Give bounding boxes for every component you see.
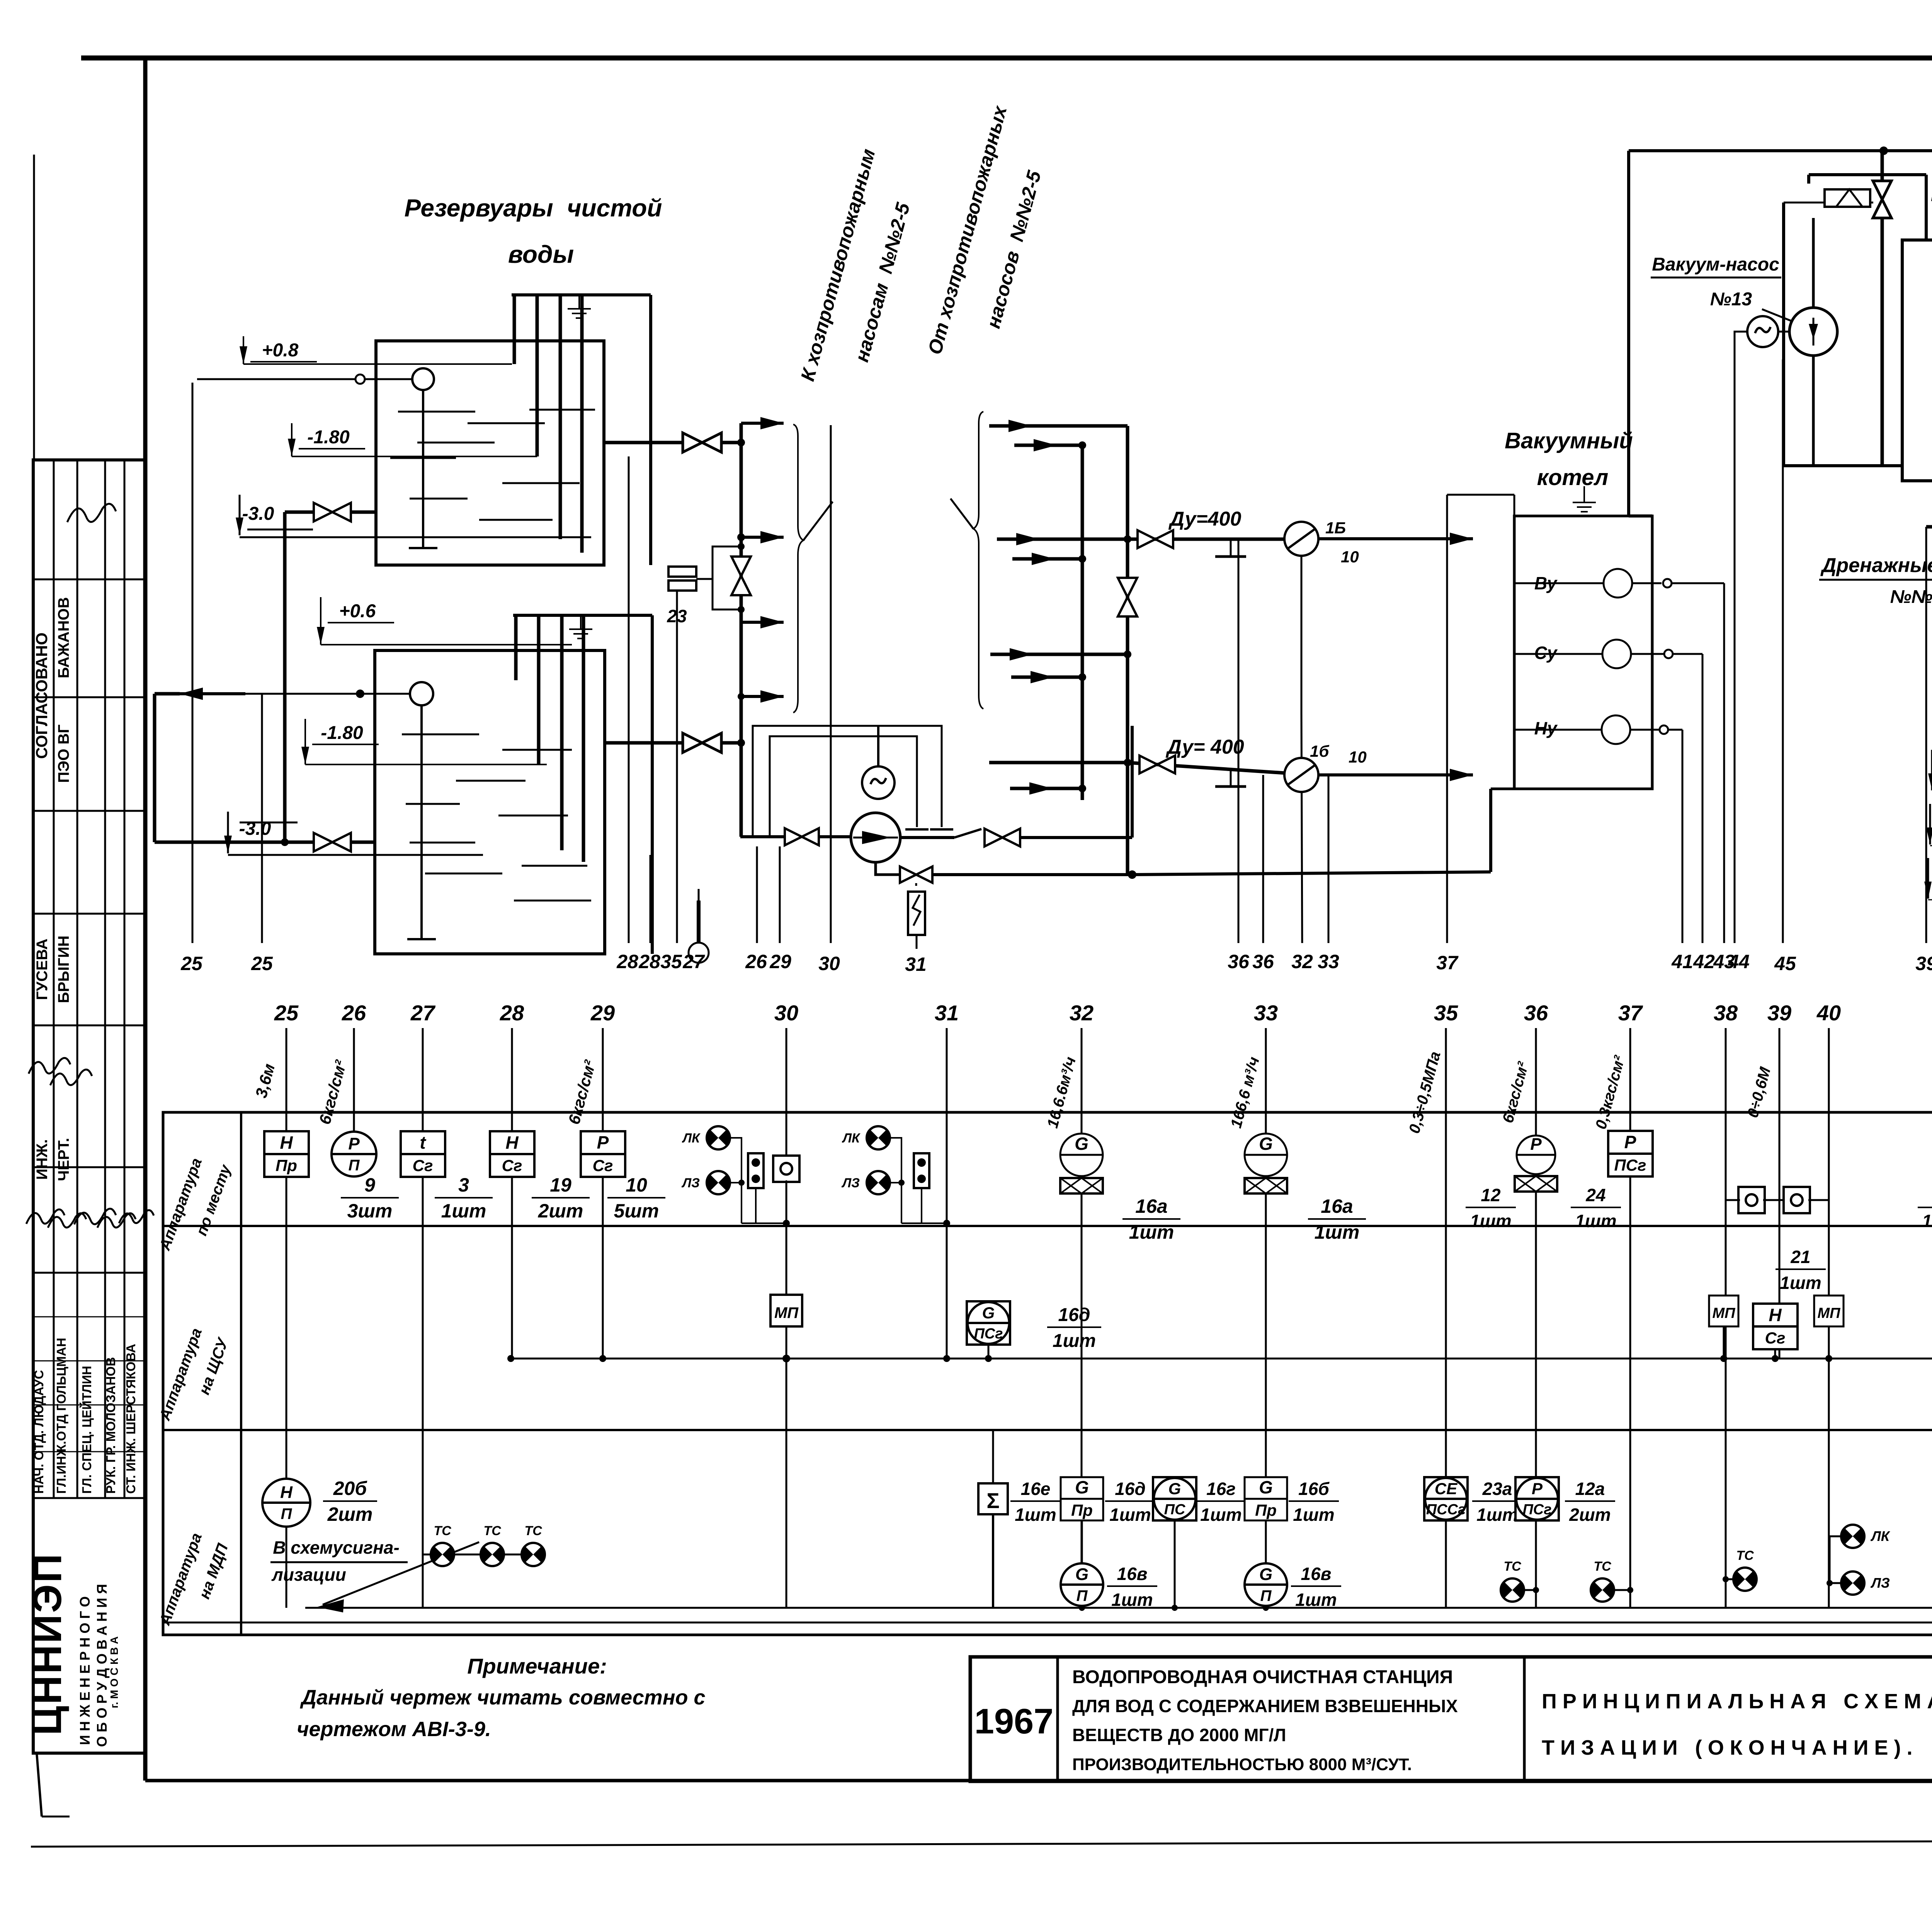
svg-text:16д: 16д — [1115, 1479, 1146, 1499]
stamp signatures 3 — [26, 1209, 154, 1227]
valve T2 outlet — [683, 733, 721, 752]
svg-text:1шт: 1шт — [1470, 1211, 1511, 1231]
instrument Н/Сг col28 — [490, 1131, 534, 1177]
wire pump discharge — [900, 829, 981, 838]
wire ПСг to bus — [988, 1345, 990, 1359]
stamp column rows — [33, 579, 145, 1498]
tank T1 riser pipes — [514, 295, 582, 553]
svg-text:И Н Ж Е Н Е Р Н О Г О: И Н Ж Е Н Е Р Н О Г О — [77, 1596, 93, 1745]
float T2 — [407, 682, 436, 939]
wire T2 outlet — [605, 741, 684, 745]
svg-text:г. М О С К В А: г. М О С К В А — [108, 1636, 120, 1708]
ground tap upper — [1215, 539, 1246, 557]
wire sum box — [992, 1430, 994, 1608]
svg-text:1шт: 1шт — [1111, 1590, 1153, 1610]
svg-text:СТ. ИНЖ. ШЕРСТЯКОВА: СТ. ИНЖ. ШЕРСТЯКОВА — [124, 1344, 138, 1494]
boiler level СУ — [1514, 640, 1702, 668]
wire drop 39 — [1925, 527, 1927, 943]
wire drop 35a — [676, 591, 678, 943]
frac 25/1шт col41 — [1918, 1185, 1932, 1231]
svg-text:Н: Н — [280, 1483, 293, 1502]
instr G/ПСг col31 — [967, 1301, 1010, 1345]
instr G/Пр col32 — [1061, 1477, 1103, 1520]
motor M1 — [862, 766, 895, 799]
svg-text:36: 36 — [1228, 951, 1250, 972]
svg-text:-3.0: -3.0 — [242, 504, 274, 524]
label К хозпротивопожарным — [796, 146, 914, 383]
wire discharge to boiler — [1132, 789, 1491, 875]
svg-text:G: G — [982, 1304, 995, 1322]
manifold 2 arrow 3 — [997, 533, 1039, 545]
lamp ТС 27b — [453, 1524, 504, 1566]
svg-text:5шт: 5шт — [614, 1200, 659, 1222]
svg-text:ПС: ПС — [1164, 1502, 1185, 1518]
manifold 1 dots — [737, 439, 745, 747]
svg-text:1шт: 1шт — [1129, 1221, 1174, 1243]
thermometer — [689, 889, 709, 963]
instrument P/П col26 — [332, 1132, 376, 1176]
instrument Р/ПСг col37 — [1608, 1131, 1653, 1176]
manifold 1 arrow 1 — [741, 417, 784, 429]
manifold 2 pipe — [1082, 426, 1128, 875]
svg-text:28: 28 — [500, 1001, 524, 1025]
label От хозпротивопожарных — [924, 103, 1045, 357]
tank T2 right pipe — [651, 615, 654, 954]
svg-text:2шт: 2шт — [1569, 1505, 1611, 1525]
valve pump suction — [785, 828, 819, 845]
stamp signature 2 — [29, 1058, 92, 1085]
instr Н/П col25 — [262, 1479, 310, 1527]
table outline — [163, 1112, 1932, 1635]
svg-text:котел: котел — [1537, 465, 1609, 490]
label 30a lineA — [818, 953, 840, 974]
sum box col31 — [978, 1483, 1008, 1514]
title cell sheet name — [1542, 1657, 1932, 1781]
svg-text:ДЛЯ ВОД С СОДЕРЖАНИЕМ ВЗВЕШЕНН: ДЛЯ ВОД С СОДЕРЖАНИЕМ ВЗВЕШЕННЫХ — [1072, 1696, 1458, 1716]
svg-text:+0.6: +0.6 — [339, 601, 376, 621]
svg-text:Р: Р — [1624, 1132, 1636, 1152]
svg-text:38: 38 — [1714, 1001, 1738, 1025]
svg-text:16д: 16д — [1058, 1305, 1090, 1325]
wire tap drop 36a — [1238, 539, 1240, 943]
manifold 2 arrow 6 — [1011, 671, 1086, 683]
level mark -3.0 T1 — [236, 495, 313, 535]
wire pump drain — [876, 862, 1136, 879]
svg-text:9: 9 — [364, 1174, 375, 1196]
svg-text:19: 19 — [550, 1174, 571, 1196]
svg-text:33: 33 — [1254, 1001, 1278, 1025]
label Циркуляционный бачок — [1931, 183, 1932, 237]
valve manifold M2 — [1118, 578, 1137, 616]
svg-text:31: 31 — [935, 1001, 959, 1025]
svg-text:27: 27 — [682, 951, 705, 972]
wire drop 30a — [830, 425, 832, 943]
svg-text:23а: 23а — [1482, 1479, 1512, 1499]
svg-text:лизации: лизации — [271, 1565, 346, 1585]
valve pump drain — [900, 867, 932, 883]
svg-text:БАЖАНОВ: БАЖАНОВ — [55, 597, 72, 678]
wire drop 37 — [1446, 495, 1448, 943]
svg-text:Сг: Сг — [593, 1156, 613, 1175]
svg-text:26: 26 — [342, 1001, 366, 1025]
svg-text:29: 29 — [590, 1001, 615, 1025]
valve Du400 lower — [1139, 756, 1175, 773]
table label column — [240, 1112, 242, 1635]
svg-text:30: 30 — [774, 1001, 798, 1025]
label 45a lineA — [1774, 953, 1796, 974]
svg-text:воды: воды — [508, 240, 574, 268]
U-loop outer — [753, 726, 953, 837]
wire МП40 — [1828, 1326, 1830, 1359]
svg-text:Р: Р — [1530, 1135, 1542, 1154]
vacuum pump 13 label — [1651, 254, 1801, 325]
wire drop 42 — [1702, 654, 1704, 943]
frac 24/1шт col36 — [1571, 1185, 1621, 1231]
tank T2 riser header — [513, 614, 652, 617]
frac 16в/1шт b — [1291, 1564, 1341, 1610]
svg-text:ПСг: ПСг — [1522, 1502, 1551, 1518]
unit label 35 — [1406, 1050, 1444, 1135]
svg-text:Данный чертеж читать совмес: Данный чертеж читать совместно с — [300, 1686, 705, 1709]
svg-text:1Б: 1Б — [1325, 519, 1346, 537]
svg-text:G: G — [1075, 1477, 1089, 1497]
tank T2 water lines — [402, 734, 591, 901]
paper edge left — [33, 155, 35, 460]
svg-text:1шт: 1шт — [441, 1200, 486, 1222]
wire T1 outlet — [604, 441, 684, 444]
svg-text:27: 27 — [410, 1001, 436, 1025]
svg-text:П Р И Н Ц И П И А Л Ь Н А Я: П Р И Н Ц И П И А Л Ь Н А Я С Х Е М А А … — [1542, 1690, 1932, 1713]
frac 9/3шт — [341, 1174, 399, 1222]
boiler level НУ — [1514, 715, 1682, 744]
unit label 37 — [1592, 1053, 1628, 1131]
svg-text:26: 26 — [745, 951, 767, 972]
svg-text:24: 24 — [1585, 1185, 1605, 1205]
label 1b lower — [1310, 742, 1367, 766]
wire Du400 lower — [989, 759, 1284, 773]
wire T1 drain level line — [240, 536, 556, 538]
svg-text:G: G — [1259, 1565, 1272, 1584]
relay МП col38 — [1709, 1296, 1738, 1326]
manifold 2 arrow 4 — [1012, 553, 1086, 565]
svg-text:37: 37 — [1618, 1001, 1643, 1025]
unit label 39 — [1744, 1065, 1774, 1120]
stamp text БАЖАНОВ — [55, 597, 72, 678]
unit label 36 — [1499, 1059, 1532, 1125]
label 36b lineA — [1252, 951, 1274, 972]
instr G/П col33b — [1245, 1563, 1287, 1606]
unit label 29 — [565, 1058, 599, 1126]
svg-text:16а: 16а — [1135, 1195, 1167, 1217]
svg-text:40: 40 — [1816, 1001, 1841, 1025]
svg-text:35: 35 — [1434, 1001, 1458, 1025]
wire motor13 link — [1778, 331, 1789, 333]
svg-text:СЕ: СЕ — [1435, 1479, 1458, 1498]
wire Du400 upper out — [1318, 533, 1473, 545]
wire top center drop — [1881, 151, 1884, 466]
stamp text ПЭО ВГ — [55, 725, 72, 783]
svg-text:28: 28 — [616, 951, 638, 972]
note Примечание — [467, 1654, 607, 1678]
svg-text:№13: №13 — [1710, 289, 1752, 310]
label 44a lineA — [1728, 951, 1750, 972]
svg-text:2шт: 2шт — [327, 1503, 373, 1525]
svg-text:Пр: Пр — [1255, 1501, 1277, 1519]
lamp ТС col37 — [1591, 1559, 1633, 1602]
wire drop 28a — [628, 456, 630, 943]
wire col28 to bus — [511, 1226, 512, 1359]
valve T1 drain — [314, 503, 351, 521]
stamp logo line2 — [77, 1596, 93, 1745]
svg-text:Р: Р — [1532, 1479, 1543, 1498]
stamp text ЧЕРТ — [55, 1138, 72, 1181]
svg-text:Резервуары чистой: Резервуары чистой — [405, 194, 662, 222]
label 37 lineA — [1436, 952, 1459, 974]
label 1Б upper — [1325, 519, 1359, 566]
frac 16е/1шт — [1010, 1479, 1061, 1525]
manifold 2 brace — [951, 412, 983, 709]
svg-text:ГУСЕВА: ГУСЕВА — [34, 939, 51, 1000]
svg-text:36: 36 — [1524, 1001, 1548, 1025]
wire МП col30 — [786, 1326, 787, 1359]
stamp text ГУСЕВА — [34, 939, 51, 1000]
svg-text:G: G — [1259, 1477, 1273, 1497]
wire T2 outlet b — [721, 741, 741, 745]
paper edge bottom — [31, 1831, 1932, 1847]
label Du400 lower — [1165, 736, 1244, 758]
instr G/П col32b — [1061, 1563, 1103, 1606]
unit label 32 — [1044, 1055, 1079, 1130]
label 43 lineA — [1713, 951, 1735, 972]
svg-text:1б: 1б — [1310, 742, 1329, 760]
wire drop 43 — [1682, 730, 1684, 943]
svg-text:Н: Н — [505, 1132, 519, 1153]
frac 12а/2шт — [1565, 1479, 1615, 1525]
stamp logo line4 — [108, 1636, 120, 1708]
svg-text:чертежом АВI-3-9.: чертежом АВI-3-9. — [297, 1718, 491, 1741]
label 36a lineA — [1228, 951, 1250, 972]
label Резервуары чистой воды — [405, 194, 662, 268]
svg-text:Σ: Σ — [986, 1488, 1000, 1513]
svg-text:10: 10 — [626, 1174, 647, 1196]
svg-text:41: 41 — [1671, 951, 1693, 972]
svg-text:ПСг: ПСг — [974, 1326, 1003, 1342]
svg-text:1шт: 1шт — [1053, 1331, 1096, 1351]
svg-text:10: 10 — [1349, 748, 1367, 766]
wire solenoid line — [1784, 202, 1873, 204]
svg-text:П: П — [281, 1505, 293, 1522]
svg-text:1шт: 1шт — [1295, 1590, 1337, 1610]
manifold 2 arrow 2 — [1014, 439, 1086, 451]
svg-text:t: t — [420, 1132, 426, 1153]
manifold 1 arrow 4 — [741, 690, 784, 703]
label 25b lineA — [251, 953, 273, 974]
instr СЕ/ПССг col35 — [1424, 1477, 1468, 1520]
svg-text:П: П — [1260, 1587, 1272, 1604]
frac 3/1шт — [435, 1174, 493, 1222]
border frame bottom — [145, 1779, 1932, 1783]
lamp ТС 27c — [503, 1524, 545, 1566]
svg-text:16в: 16в — [1301, 1564, 1332, 1584]
solenoid header — [1809, 175, 1926, 184]
wire drop 25b — [261, 694, 263, 943]
svg-text:В схемусигна-: В схемусигна- — [273, 1537, 400, 1558]
svg-text:25: 25 — [274, 1001, 299, 1025]
svg-text:№№ 9,10: №№ 9,10 — [1890, 587, 1932, 607]
wire pump13 bottom — [1812, 356, 1815, 466]
manifold 2 arrow 1 — [989, 420, 1128, 432]
press instr P col36 — [1515, 1135, 1557, 1192]
table inner bottom — [163, 1622, 1932, 1624]
instr G/Пр col33 — [1245, 1477, 1287, 1520]
svg-text:Н: Н — [280, 1132, 293, 1153]
label Du400 upper — [1168, 508, 1242, 530]
row3 bottom bus — [305, 1607, 1932, 1609]
label 23 — [667, 606, 687, 626]
svg-text:ПССг: ПССг — [1426, 1502, 1466, 1518]
svg-text:1шт: 1шт — [1109, 1505, 1151, 1525]
vacuum pump 13 — [1789, 308, 1837, 356]
wire drop 29a — [779, 846, 781, 943]
wire flow drop 32 — [1301, 556, 1302, 943]
label 28b lineA — [638, 951, 660, 972]
svg-text:12: 12 — [1481, 1185, 1501, 1205]
label 25a lineA — [180, 953, 203, 974]
ground symbol boiler — [1573, 486, 1596, 512]
svg-text:1шт: 1шт — [1780, 1273, 1821, 1293]
svg-text:37: 37 — [1436, 952, 1459, 974]
wire return riser — [1131, 726, 1134, 838]
svg-text:Сг: Сг — [1765, 1329, 1786, 1347]
manifold 1 arrow 3 — [741, 616, 784, 628]
svg-text:16в: 16в — [1117, 1564, 1148, 1584]
svg-text:16г: 16г — [1206, 1479, 1236, 1499]
svg-text:32: 32 — [1291, 951, 1313, 972]
svg-text:Пр: Пр — [1071, 1501, 1093, 1519]
svg-text:16б: 16б — [1298, 1479, 1330, 1499]
wire flow drop 33 — [1328, 775, 1330, 943]
svg-text:36: 36 — [1252, 951, 1274, 972]
svg-text:ЛК: ЛК — [682, 1131, 701, 1146]
title cell project name — [1072, 1657, 1524, 1781]
svg-text:Су: Су — [1534, 643, 1558, 663]
label 29a lineA — [769, 951, 791, 972]
svg-text:РУК. ГР. МОЛОЗАНОВ: РУК. ГР. МОЛОЗАНОВ — [104, 1357, 118, 1494]
wire boiler bottom — [1491, 788, 1514, 790]
svg-text:ЛК: ЛК — [1870, 1528, 1891, 1544]
svg-text:НАЧ. ОТД. ЛЮДАУС: НАЧ. ОТД. ЛЮДАУС — [32, 1370, 46, 1494]
svg-text:32: 32 — [1070, 1001, 1094, 1025]
frac 21/1шт row2 — [1776, 1247, 1826, 1293]
svg-text:16а: 16а — [1321, 1195, 1353, 1217]
svg-text:45: 45 — [1774, 953, 1796, 974]
svg-text:Ду=400: Ду=400 — [1168, 508, 1242, 530]
frac 23а/1шт — [1472, 1479, 1522, 1525]
solenoid 23 symbol — [668, 567, 713, 591]
svg-text:ПСг: ПСг — [1614, 1156, 1646, 1174]
level -2.90 — [1924, 858, 1932, 900]
svg-text:Ну: Ну — [1534, 718, 1558, 738]
stamp text БРЫГИН — [55, 936, 72, 1003]
wire motor13 drop — [1735, 332, 1747, 943]
svg-text:П: П — [1077, 1587, 1088, 1604]
label 39 lineA — [1915, 953, 1932, 974]
manifold 1 brace — [793, 424, 833, 713]
svg-text:G: G — [1075, 1134, 1088, 1154]
svg-text:1шт: 1шт — [1200, 1505, 1242, 1525]
lamp group col30 — [681, 1126, 799, 1227]
frac 16в/1шт a — [1107, 1564, 1157, 1610]
flow circle 1b lower — [1284, 758, 1318, 792]
unit label 26 — [315, 1058, 350, 1126]
inlet arrow — [180, 688, 245, 700]
svg-text:Ду= 400: Ду= 400 — [1165, 736, 1244, 758]
svg-text:-1.80: -1.80 — [321, 723, 363, 743]
unit label 3.6m — [252, 1062, 279, 1100]
wire inlet to float — [245, 690, 410, 698]
tank T1 riser header — [512, 293, 651, 296]
float T1 — [409, 368, 437, 548]
stamp logo line3 — [94, 1584, 110, 1747]
svg-text:ПЭО ВГ: ПЭО ВГ — [55, 725, 72, 783]
svg-text:ТС: ТС — [1736, 1548, 1754, 1563]
border frame left — [143, 58, 148, 1781]
frac 16б/1шт — [1289, 1479, 1339, 1525]
wire T2 drain — [155, 694, 375, 846]
svg-text:ИНЖ.: ИНЖ. — [34, 1139, 51, 1180]
svg-text:ЧЕРТ.: ЧЕРТ. — [55, 1138, 72, 1181]
svg-text:35: 35 — [660, 951, 682, 972]
title block outline — [970, 1657, 1932, 1781]
instr G/ПС circle — [1153, 1477, 1196, 1520]
valve Du400 upper — [1138, 530, 1173, 548]
wire drop 25a — [192, 383, 194, 943]
lamp ТС col38 — [1723, 1548, 1757, 1591]
top bus — [1629, 146, 1932, 155]
row2 bus — [511, 1358, 1932, 1360]
svg-text:Сг: Сг — [502, 1156, 522, 1175]
svg-text:21: 21 — [1790, 1247, 1810, 1267]
stamp column verticals — [54, 460, 124, 1498]
svg-text:ТС: ТС — [524, 1524, 542, 1538]
stamp signature 1 — [67, 504, 116, 522]
svg-text:ТС: ТС — [483, 1524, 501, 1538]
svg-text:1шт: 1шт — [1015, 1505, 1056, 1525]
wire pump discharge b — [1020, 836, 1132, 839]
row2 label — [156, 1326, 232, 1423]
svg-text:+0.8: +0.8 — [262, 340, 299, 361]
valve top center — [1873, 181, 1891, 218]
svg-text:12а: 12а — [1575, 1479, 1605, 1499]
bypass loop — [713, 546, 741, 609]
wire drain left ext — [1926, 525, 1932, 529]
border frame top — [81, 56, 1932, 61]
valve T2 drain — [314, 833, 351, 851]
svg-text:ПРОИЗВОДИТЕЛЬНОСТЬЮ 8000 М³/СУ: ПРОИЗВОДИТЕЛЬНОСТЬЮ 8000 М³/СУТ. — [1072, 1755, 1412, 1774]
valve T1 outlet — [683, 433, 721, 452]
svg-text:ЛЗ: ЛЗ — [841, 1176, 860, 1190]
wire T1 drain — [285, 512, 376, 842]
svg-text:20б: 20б — [333, 1478, 368, 1499]
tank T2 riser pipes — [516, 615, 583, 862]
inner loop left — [1784, 203, 1902, 466]
wire drop 45a — [1782, 359, 1784, 943]
flow instr G col33 — [1245, 1134, 1287, 1193]
svg-text:33: 33 — [1318, 951, 1339, 972]
svg-text:44: 44 — [1728, 951, 1750, 972]
U-loop inner — [770, 736, 929, 837]
svg-text:10: 10 — [1341, 548, 1359, 566]
